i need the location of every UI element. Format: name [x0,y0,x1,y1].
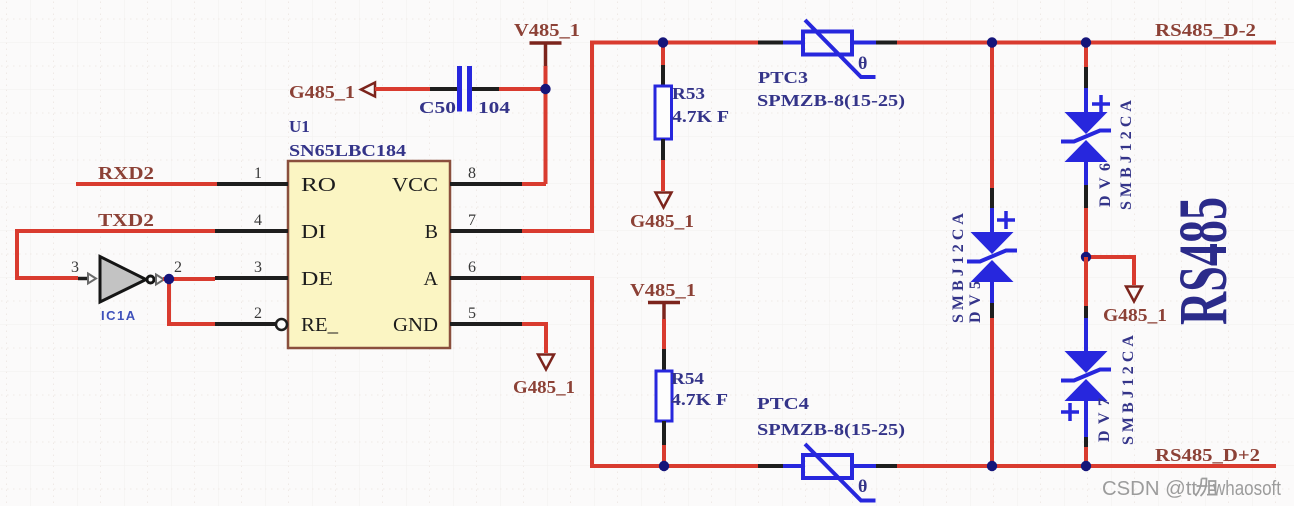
junction DV7 bottom rail [1081,461,1091,471]
thermistor PTC4 left black lead [758,464,783,468]
power port G485_1 arrow at C50 [361,83,375,97]
wire R54 to bottom rail [662,445,666,466]
wire R53 top [661,43,665,66]
component U1 SN65LBC184 body [288,161,450,348]
watermark CJK glyph jie [1196,479,1218,497]
diode DV5 top lead black [990,188,994,208]
wire G485_1 to C50 [375,87,430,91]
junction inverter output node [164,274,174,284]
thermistor PTC3 body [803,32,852,55]
power port V485_1 top [530,43,562,66]
svg-text:RO: RO [301,174,336,196]
thermistor PTC4 right blue lead [852,464,876,468]
svg-text:CSDN @tt: CSDN @tt [1102,478,1197,500]
svg-text:V485_1: V485_1 [630,280,696,300]
svg-text:7: 7 [468,212,476,229]
capacitor C50 plates [460,66,470,112]
inverter output bubble [147,276,154,283]
svg-text:2: 2 [254,305,262,322]
diode DV6 bottom lead blue [1084,160,1088,185]
wire B pin up to top rail [522,43,592,234]
pin 1 stub [217,182,288,186]
wire bottom rail left segment [590,464,758,468]
thermistor PTC3 diagonal [805,20,876,77]
svg-text:1: 1 [254,165,262,182]
wire R53 to ground [661,160,665,191]
wire bottom rail right segment [897,464,1276,468]
wire V485_1 vertical [544,66,548,184]
junction DV6/DV7 node [1081,252,1091,262]
thermistor PTC3 right black lead [876,41,897,45]
wire TXD2 to inverter input [17,231,215,278]
diode DV7 bottom lead black [1084,437,1088,447]
svg-text:A: A [424,268,439,290]
diode DV6 TVS body [1061,112,1111,162]
svg-text:DI: DI [301,221,326,243]
svg-text:3: 3 [71,259,79,276]
pin 5 stub [450,322,522,326]
junction DV6 top rail [1081,37,1091,47]
wire VCC pin to V485_1 [522,182,546,186]
resistor R53 top lead [661,65,665,86]
pin 8 stub [450,182,522,186]
pin 2 stub RE_ [215,322,276,326]
thermistor PTC4 body [803,455,852,478]
wire A pin down to bottom rail [521,276,592,466]
wire DV6/DV7 node to ground branch [1086,257,1134,285]
svg-text:SPMZB-8(15-25): SPMZB-8(15-25) [757,91,905,110]
svg-text:θ: θ [858,53,867,73]
diode DV7 bottom lead blue [1084,399,1088,437]
svg-text:2: 2 [174,259,182,276]
diode DV6 bottom lead black [1084,185,1088,208]
ground G485_1 arrow at pin 5 [538,355,554,370]
svg-text:DV5: DV5 [967,281,984,323]
svg-text:104: 104 [478,98,511,117]
diode DV7 top lead black [1084,306,1088,318]
resistor R54 top lead [662,349,666,371]
junction DV5 top rail [987,37,997,47]
ground G485_1 arrow at DV7 branch [1126,287,1142,302]
wire RXD2 [76,182,217,186]
diode DV5 bottom lead black [990,303,994,318]
inverter output arrow [156,275,164,285]
svg-text:C50: C50 [419,98,456,117]
svg-text:GND: GND [393,314,438,336]
svg-text:θ: θ [858,476,867,496]
diode DV5 plus sign [997,211,1015,229]
diode DV5 bottom lead blue [990,280,994,303]
pin 4 stub [215,229,288,233]
thermistor PTC3 left black lead [758,41,783,45]
thermistor PTC4 left blue lead [783,464,803,468]
inverter input stub [78,277,87,281]
capacitor C50 left lead [430,87,457,91]
svg-text:6: 6 [468,259,476,276]
svg-text:R54: R54 [671,369,705,388]
svg-text:VCC: VCC [392,174,438,196]
diode DV6 top lead black [1084,67,1088,88]
diode DV5 top lead blue [990,208,994,234]
junction R53 top rail [658,37,668,47]
svg-text:RXD2: RXD2 [98,163,154,183]
svg-text:G485_1: G485_1 [513,377,575,397]
wire top rail left segment [590,41,758,45]
diode DV6 plus sign [1092,95,1110,113]
wire inverter output down to RE_ [169,279,215,324]
svg-text:8: 8 [468,165,476,182]
thermistor PTC4 diagonal [805,444,876,501]
resistor R53 body [655,86,672,139]
svg-text:U1: U1 [289,117,310,136]
wire DV6 to DV7 [1084,208,1088,257]
inverter IC1A triangle [100,257,146,303]
svg-text:RS485_D+2: RS485_D+2 [1155,445,1260,465]
pin 6 stub [450,276,521,280]
svg-text:G485_1: G485_1 [630,211,694,231]
wire DV7 top [1084,257,1088,306]
svg-text:B: B [425,221,438,243]
wire top rail right segment [897,41,1276,45]
svg-text:SN65LBC184: SN65LBC184 [289,141,407,160]
diode DV6 top lead blue [1084,88,1088,114]
svg-text:DE: DE [301,268,333,290]
svg-text:DV6: DV6 [1097,163,1114,207]
wire V485_1 to R54 [662,319,666,349]
wire inverter output to DE [163,277,215,281]
svg-text:5: 5 [468,305,476,322]
svg-text:R53: R53 [672,84,705,103]
resistor R53 bottom lead [661,139,665,160]
svg-text:G485_1: G485_1 [289,82,355,102]
svg-text:4.7K F: 4.7K F [671,390,728,409]
svg-text:RS485: RS485 [1165,197,1241,325]
svg-text:SPMZB-8(15-25): SPMZB-8(15-25) [757,420,905,439]
svg-text:4: 4 [254,212,262,229]
svg-text:PTC3: PTC3 [758,68,808,87]
junction C50/V485_1 [540,84,550,94]
pin 2 RE_ bubble [276,319,287,330]
wire DV5 top [990,43,994,189]
resistor R54 body [656,371,672,421]
wire DV5 bottom [990,318,994,466]
wire GND pin to ground [522,324,546,353]
svg-text:IC1A: IC1A [101,308,137,323]
svg-text:RE_: RE_ [301,314,339,336]
resistor R54 bottom lead [662,421,666,445]
power port V485_1 at R54 [648,303,680,320]
svg-text:RS485_D-2: RS485_D-2 [1155,20,1256,40]
diode DV7 plus sign [1061,403,1079,421]
pin 7 stub [450,229,522,233]
capacitor C50 right lead [472,87,499,91]
junction DV5 bottom rail [987,461,997,471]
thermistor PTC3 left blue lead [783,41,803,45]
svg-text:TXD2: TXD2 [98,210,154,230]
svg-text:whaosoft: whaosoft [1212,478,1281,500]
svg-text:V485_1: V485_1 [514,20,580,40]
inverter input arrow [88,274,96,284]
diode DV7 top lead blue [1084,318,1088,353]
thermistor PTC3 right blue lead [852,41,876,45]
wire DV6 top [1084,43,1088,68]
wire DV7 bottom [1084,447,1088,466]
junction R54 bottom rail [659,461,669,471]
svg-text:G485_1: G485_1 [1103,305,1167,325]
pin 3 stub [215,276,288,280]
svg-text:3: 3 [254,259,262,276]
ground G485_1 arrow at R53 [656,193,672,208]
svg-text:DV7: DV7 [1096,398,1113,442]
wire C50 to V485_1 vertical [499,87,546,91]
svg-text:4.7K F: 4.7K F [672,107,729,126]
diode DV5 TVS body [967,232,1017,282]
thermistor PTC4 right black lead [876,464,897,468]
svg-text:PTC4: PTC4 [757,394,810,413]
diode DV7 TVS body [1061,351,1111,401]
